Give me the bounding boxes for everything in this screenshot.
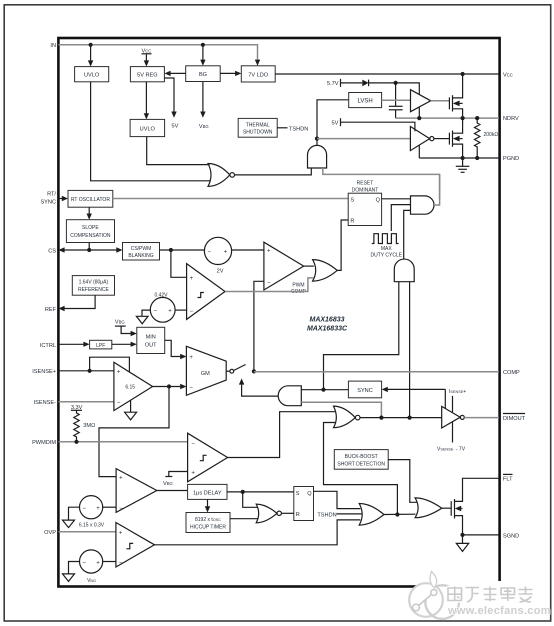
transistor M1 NDRV high-side bbox=[448, 97, 450, 109]
comparator PWM dim (schmitt) bbox=[188, 433, 228, 482]
wire LVSH to buffer bbox=[382, 99, 411, 101]
switch GM output bbox=[226, 370, 230, 372]
svg-text:GM: GM bbox=[201, 371, 210, 377]
svg-text:SYNC: SYNC bbox=[357, 388, 373, 394]
svg-text:6.15 x 0.3V: 6.15 x 0.3V bbox=[79, 523, 105, 529]
comparator OVP (schmitt) bbox=[116, 523, 155, 568]
svg-text:−: − bbox=[154, 309, 158, 315]
wire latch Q to fault OR bbox=[314, 491, 361, 508]
block 5V REG bbox=[130, 67, 164, 82]
wire oscillator to latch S bbox=[113, 198, 348, 200]
svg-text:PWMDIM: PWMDIM bbox=[32, 440, 56, 446]
svg-text:−: − bbox=[119, 506, 123, 512]
wire TSHDN to fault OR bbox=[337, 513, 362, 515]
node amp out junction bbox=[167, 384, 171, 388]
svg-text:OVP: OVP bbox=[44, 530, 56, 536]
svg-text:S: S bbox=[350, 197, 354, 203]
svg-text:R: R bbox=[350, 219, 354, 225]
wire AND right input from max-duty logic bbox=[323, 168, 440, 199]
node delay junction bbox=[241, 490, 245, 494]
wire BG to 7VLDO arrow bbox=[220, 72, 237, 74]
svg-text:5V: 5V bbox=[332, 120, 339, 126]
svg-text:Q: Q bbox=[376, 197, 381, 203]
node dim junction 2 bbox=[408, 416, 412, 420]
wire ISENSE+ supply loop bbox=[90, 357, 130, 372]
wire 5VREG 5V output bbox=[164, 78, 174, 113]
svg-text:TSHDN: TSHDN bbox=[289, 126, 308, 132]
wire CS comparator out bbox=[225, 278, 314, 292]
gate NOR2 hiccup bbox=[256, 504, 277, 523]
wire drive to inverter bbox=[317, 138, 410, 140]
node dim junction 1 bbox=[379, 416, 383, 420]
svg-text:+: + bbox=[119, 530, 123, 536]
wire COMP bbox=[254, 371, 499, 373]
wire buffer out to M1 gate bbox=[431, 100, 450, 102]
svg-text:BLANKING: BLANKING bbox=[128, 253, 153, 259]
wire duty AND right input from dim node bbox=[409, 282, 411, 418]
wire into SYNC right arrow bbox=[386, 388, 445, 390]
block 7V LDO bbox=[241, 66, 275, 82]
svg-text:S: S bbox=[296, 491, 300, 497]
svg-text:CS/PWM: CS/PWM bbox=[131, 246, 152, 252]
wire 7VLDO to VCC pin bbox=[275, 73, 499, 75]
inverter U3 low-side driver bbox=[410, 127, 429, 151]
svg-text:MAX: MAX bbox=[381, 246, 393, 252]
svg-text:2V: 2V bbox=[217, 269, 224, 275]
wire sync AND input1 bbox=[301, 389, 323, 391]
svg-text:+: + bbox=[267, 249, 271, 255]
wire delay box down to hiccup bbox=[207, 499, 209, 507]
svg-text:7V LDO: 7V LDO bbox=[248, 72, 269, 78]
svg-text:1.64V (80μA): 1.64V (80μA) bbox=[79, 280, 109, 286]
wire DIMOUT bbox=[464, 417, 499, 419]
comparator CS limit (schmitt) bbox=[187, 264, 225, 320]
block MIN OUT bbox=[137, 327, 165, 353]
svg-text:+: + bbox=[96, 506, 100, 512]
svg-text:RT OSCILLATOR: RT OSCILLATOR bbox=[71, 197, 110, 203]
svg-text:3MΩ: 3MΩ bbox=[83, 423, 95, 429]
svg-text:+: + bbox=[190, 276, 194, 282]
wire VBG to MIN OUT bbox=[121, 326, 132, 333]
svg-text:MAX16833C: MAX16833C bbox=[307, 326, 348, 333]
wire 0.42V to comparator bbox=[175, 309, 187, 311]
svg-text:−: − bbox=[119, 560, 123, 566]
block RT OSCILLATOR bbox=[68, 190, 113, 207]
wire OVP to comparator bbox=[58, 531, 116, 533]
node blanking junction bbox=[169, 248, 173, 252]
wire blanking to summer bbox=[160, 249, 205, 251]
svg-text:−: − bbox=[191, 441, 195, 447]
svg-text:−: − bbox=[267, 280, 271, 286]
svg-text:−: − bbox=[83, 560, 87, 566]
wire source to comparator bbox=[103, 506, 116, 508]
block LPF bbox=[90, 340, 112, 349]
svg-text:PWM: PWM bbox=[292, 282, 304, 288]
node bootstrap junction bbox=[394, 81, 398, 85]
resistor R2 3M bbox=[74, 410, 79, 442]
wire summer to PWM comp bbox=[232, 249, 264, 251]
svg-text:−: − bbox=[190, 309, 194, 315]
op-amp current sense 6.15 bbox=[114, 362, 153, 410]
svg-text:1μs DELAY: 1μs DELAY bbox=[193, 490, 222, 496]
wire comparator to 1us delay bbox=[157, 490, 188, 492]
wire IN rail bbox=[58, 45, 257, 60]
wire RT/SYNC into oscillator bbox=[58, 198, 63, 200]
comparator dim-off bbox=[116, 469, 157, 513]
svg-text:ISENSE+: ISENSE+ bbox=[32, 369, 56, 375]
node PGND junctions bbox=[461, 156, 465, 160]
svg-text:FLT: FLT bbox=[503, 477, 513, 483]
wire latch Q to AND bbox=[382, 198, 411, 200]
svg-text:IN: IN bbox=[50, 43, 56, 49]
node drive junction bbox=[315, 137, 319, 141]
block 1us DELAY bbox=[188, 484, 227, 499]
svg-text:PGND: PGND bbox=[503, 156, 519, 162]
svg-text:TSHDN: TSHDN bbox=[317, 512, 336, 518]
wire fault OR out bbox=[384, 513, 416, 515]
wire TSHDN stub bbox=[277, 127, 287, 129]
wire MIN OUT to GM plus bbox=[165, 340, 182, 356]
svg-text:LVSH: LVSH bbox=[357, 99, 372, 105]
wire ISENSE+ to amp bbox=[58, 370, 114, 372]
svg-text:BUCK-BOOST: BUCK-BOOST bbox=[345, 454, 378, 460]
buffer DIMOUT driver bbox=[442, 406, 461, 428]
svg-text:+: + bbox=[189, 355, 193, 361]
wire AND output up bbox=[316, 139, 318, 146]
wire UVLO2 to NOR bbox=[147, 137, 210, 165]
svg-text:THERMAL: THERMAL bbox=[246, 122, 270, 128]
wire oscillator to slope comp bbox=[88, 207, 90, 214]
svg-text:MAX16833: MAX16833 bbox=[309, 317, 344, 324]
summer 2V offset bbox=[204, 237, 231, 264]
svg-text:UVLO: UVLO bbox=[84, 72, 100, 78]
op-amp GM bbox=[186, 346, 226, 395]
wire buck-boost to OR2 bbox=[388, 460, 416, 503]
svg-text:5V: 5V bbox=[172, 124, 179, 130]
svg-text:OUT: OUT bbox=[145, 342, 157, 348]
wire AND out to gate drive bbox=[434, 174, 440, 205]
latch SR fault bbox=[294, 487, 314, 521]
svg-text:DIMOUT: DIMOUT bbox=[503, 416, 526, 422]
node NDRV junctions bbox=[417, 116, 421, 120]
gate NOR dimout bbox=[334, 406, 356, 428]
svg-text:Q: Q bbox=[307, 491, 312, 497]
gate AND pwm-out bbox=[411, 196, 435, 214]
ground source2 bbox=[69, 562, 80, 574]
wire sync node to SYNC box bbox=[324, 389, 349, 391]
svg-text:ISENSE-: ISENSE- bbox=[34, 400, 57, 406]
wire OVP comparator to fault OR bbox=[155, 520, 361, 545]
svg-text:SHORT DETECTION: SHORT DETECTION bbox=[337, 461, 385, 467]
wire amp out to GM minus bbox=[153, 386, 182, 388]
wire 5VREG to UVLO2 bbox=[145, 82, 147, 115]
block CS/PWM BLANKING bbox=[123, 243, 160, 261]
node sync junction bbox=[321, 388, 325, 392]
wire blanking down to CS comparator bbox=[171, 250, 187, 277]
ground PGND bbox=[462, 158, 464, 166]
wire buffer supply bottom bbox=[418, 107, 420, 118]
block BUCK-BOOST SHORT DETECTION bbox=[334, 450, 388, 470]
ground 6.15 amp bbox=[130, 400, 132, 412]
svg-text:+: + bbox=[119, 475, 123, 481]
gate OR fault bbox=[359, 504, 384, 526]
wire switch control arrow bbox=[242, 384, 279, 397]
wire CS line with arrows bbox=[64, 249, 118, 251]
svg-text:SHUTDOWN: SHUTDOWN bbox=[243, 129, 273, 135]
svg-text:DOMINANT: DOMINANT bbox=[352, 187, 379, 193]
block UVLO (U1) bbox=[75, 67, 109, 82]
wire BG VBG output bbox=[202, 82, 204, 113]
block LVSH level shifter bbox=[349, 93, 382, 108]
svg-text:www.elecfans.com: www.elecfans.com bbox=[447, 605, 551, 617]
wire UVLO1 to NOR bbox=[91, 82, 211, 181]
svg-text:+: + bbox=[168, 309, 172, 315]
node IN-UVLO junction bbox=[89, 43, 93, 47]
wire SGND bbox=[463, 534, 500, 536]
wire hiccup to NOR2 input2 bbox=[230, 518, 258, 520]
resistor R1 200k bbox=[475, 118, 480, 158]
svg-text:R: R bbox=[296, 512, 300, 518]
capacitor C1 bootstrap bbox=[395, 83, 397, 106]
svg-text:−: − bbox=[83, 506, 87, 512]
svg-text:REFERENCE: REFERENCE bbox=[78, 287, 110, 293]
wire duty AND left input from sync node bbox=[324, 282, 399, 390]
svg-text:−: − bbox=[207, 250, 211, 256]
wire dim comparator to NOR input1 bbox=[228, 412, 335, 458]
wire PWMDIM rail bbox=[58, 441, 187, 443]
node CS junction bbox=[87, 248, 91, 252]
gate NOR U-V lockout bbox=[208, 164, 230, 187]
svg-text:DUTY CYCLE: DUTY CYCLE bbox=[371, 253, 403, 259]
wire NOR out to buffer bbox=[360, 417, 442, 419]
gate OR pwm/cs bbox=[313, 260, 338, 282]
block SLOPE COMPENSATION bbox=[66, 220, 114, 243]
wire REF output bbox=[64, 295, 96, 308]
svg-text:200kΩ: 200kΩ bbox=[484, 132, 499, 138]
wire OR out to latch R bbox=[337, 220, 348, 270]
watermark elecfans logo bbox=[424, 583, 502, 590]
svg-text:LPF: LPF bbox=[96, 343, 105, 349]
wire PWM comp minus input bbox=[254, 281, 264, 371]
svg-text:+: + bbox=[191, 471, 195, 477]
node ISENSE+ junction bbox=[88, 369, 92, 373]
svg-text:−: − bbox=[189, 385, 193, 391]
wire bootstrap to buffer supply bbox=[396, 83, 420, 95]
gate AND max duty (vertical) bbox=[394, 259, 414, 282]
svg-text:6.15: 6.15 bbox=[125, 385, 135, 391]
svg-text:HICCUP TIMER: HICCUP TIMER bbox=[190, 524, 226, 530]
svg-text:SLOPE: SLOPE bbox=[82, 225, 99, 231]
svg-text:COMP: COMP bbox=[503, 370, 520, 376]
svg-text:REF: REF bbox=[45, 307, 57, 313]
watermark CJK text (pseudo glyphs) bbox=[448, 587, 533, 603]
svg-text:RESET: RESET bbox=[357, 180, 374, 186]
op-amp PWM COMP bbox=[264, 242, 304, 290]
wire PGND rail bbox=[419, 157, 499, 159]
source 6.15 x 0.3V bbox=[80, 496, 103, 519]
node SGND junction bbox=[460, 533, 464, 537]
block THERMAL SHUTDOWN bbox=[238, 118, 277, 137]
gate OR2 fault drive bbox=[415, 498, 442, 518]
wire IN to BG arrow bbox=[202, 45, 204, 61]
wire drive to LVSH bbox=[317, 100, 349, 139]
svg-text:UVLO: UVLO bbox=[140, 126, 156, 132]
wire fault to NOR input2 bbox=[324, 423, 398, 515]
transistor M3 FLT bbox=[450, 501, 452, 516]
wire PWM comp out to OR bbox=[304, 265, 314, 267]
source VBG tap bbox=[169, 472, 188, 477]
svg-text:+: + bbox=[224, 250, 228, 256]
source VBG ovp bbox=[80, 550, 103, 573]
svg-text:CS: CS bbox=[48, 248, 56, 254]
gate AND bootstrap drive (vertical) bbox=[308, 145, 327, 168]
wire maxduty clock to AND bbox=[391, 205, 410, 231]
wire NOR out to AND input bbox=[235, 168, 312, 175]
block HICCUP TIMER bbox=[186, 513, 230, 533]
svg-text:RT/: RT/ bbox=[47, 192, 56, 198]
block SYNC bbox=[348, 381, 381, 398]
wire delay out to latch S bbox=[227, 491, 294, 493]
node IN-BG junction bbox=[201, 43, 205, 47]
block BG bandgap bbox=[186, 66, 221, 82]
svg-text:NDRV: NDRV bbox=[503, 116, 519, 122]
schmitt symbol bbox=[198, 293, 204, 298]
svg-text:COMPENSATION: COMPENSATION bbox=[70, 233, 111, 239]
wire BG to 5VREG arrow bbox=[169, 72, 186, 74]
wire ISENSE- to amp bbox=[58, 401, 114, 403]
IC boundary box bbox=[58, 38, 499, 587]
ground SGND bbox=[462, 535, 464, 544]
gate AND sync (left pointing) bbox=[278, 386, 301, 406]
wire slope comp to CS line bbox=[88, 243, 90, 251]
wire sync AND input2 from dim node bbox=[301, 402, 381, 417]
wire OR2 to M3 gate bbox=[442, 507, 451, 509]
svg-text:5V REG: 5V REG bbox=[137, 72, 158, 78]
svg-text:+: + bbox=[96, 560, 100, 566]
svg-text:5.7V: 5.7V bbox=[327, 81, 339, 87]
ground source1 bbox=[69, 507, 80, 520]
transistor M2 NDRV low-side bbox=[448, 133, 450, 145]
svg-text:MIN: MIN bbox=[146, 334, 156, 340]
wire ICTRL to LPF bbox=[58, 343, 85, 345]
wire NDRV rail bbox=[396, 117, 499, 119]
ground 0.42V bbox=[142, 310, 150, 316]
node fault junction bbox=[395, 512, 399, 516]
wire IN to 7VLDO arrow bbox=[255, 60, 260, 66]
label VSENSE- supply bbox=[452, 422, 454, 443]
node COMP junction bbox=[252, 369, 256, 373]
wire inverter supply bottom bbox=[418, 145, 420, 158]
node VCC junction bbox=[461, 72, 465, 76]
svg-text:ICTRL: ICTRL bbox=[40, 343, 56, 349]
svg-text:SGND: SGND bbox=[503, 533, 519, 539]
buffer U2 high-side driver bbox=[411, 90, 431, 112]
wire VCC into 5VREG bbox=[145, 55, 147, 62]
diode D1 bootstrap bbox=[362, 80, 368, 87]
wire IN to UVLO arrow bbox=[90, 45, 92, 62]
svg-text:SYNC: SYNC bbox=[40, 200, 56, 206]
node PWMDIM junction bbox=[74, 440, 78, 444]
waveform MAX DUTY CYCLE bbox=[372, 234, 399, 244]
block UVLO2 bbox=[130, 119, 165, 136]
wire amp out feedback to dim comparator bbox=[99, 387, 169, 477]
wire LPF to MIN OUT bbox=[112, 343, 132, 345]
wire duty AND up to AND bbox=[404, 210, 411, 259]
wire NOR2 to latch R bbox=[281, 512, 293, 514]
wire delay to NOR2 input1 bbox=[243, 492, 258, 507]
block 1.64V reference bbox=[72, 276, 114, 296]
svg-text:−: − bbox=[117, 400, 121, 406]
svg-text:BG: BG bbox=[199, 72, 207, 78]
wire inverter out to M2 gate bbox=[434, 138, 449, 140]
svg-text:+: + bbox=[117, 369, 121, 375]
wire VBG source to comparator bbox=[103, 561, 116, 563]
